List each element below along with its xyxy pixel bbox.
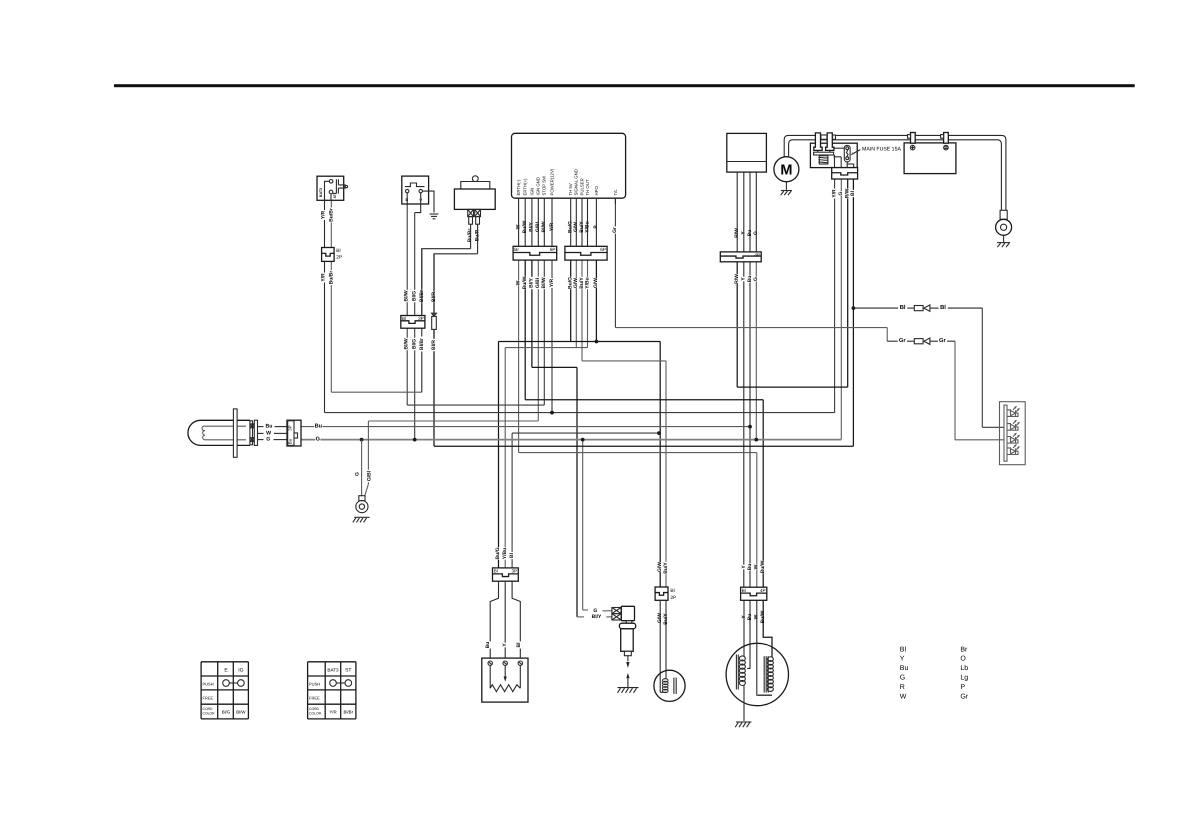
svg-text:Lg: Lg	[960, 675, 968, 682]
svg-text:3P: 3P	[511, 569, 517, 574]
svg-text:Bl: Bl	[940, 304, 946, 311]
svg-text:Gr: Gr	[960, 693, 968, 700]
svg-text:Bl/Br: Bl/Br	[344, 710, 354, 715]
svg-text:Bl/G: Bl/G	[411, 291, 417, 301]
svg-text:P: P	[960, 684, 965, 691]
svg-text:TH 5V: TH 5V	[568, 183, 573, 195]
svg-text:POWER(12V): POWER(12V)	[549, 168, 554, 195]
svg-text:W: W	[754, 564, 760, 569]
svg-text:Bl: Bl	[900, 645, 907, 653]
svg-text:6P: 6P	[550, 247, 556, 252]
svg-text:Y/Bu: Y/Bu	[584, 277, 590, 288]
svg-text:G: G	[838, 191, 844, 195]
svg-text:IG: IG	[238, 668, 243, 674]
svg-text:IGN: IGN	[529, 188, 534, 196]
svg-text:PULSER: PULSER	[579, 178, 584, 195]
svg-text:COLOR: COLOR	[309, 711, 322, 715]
svg-text:G: G	[753, 277, 759, 281]
svg-text:Bu/Br: Bu/Br	[329, 208, 335, 222]
svg-text:G/Bl: G/Bl	[366, 470, 372, 481]
svg-text:Bu/W: Bu/W	[760, 560, 766, 573]
svg-text:Y/R: Y/R	[329, 710, 336, 715]
svg-text:Bl: Bl	[670, 588, 674, 594]
svg-text:ST: ST	[345, 668, 351, 674]
svg-text:FREE: FREE	[309, 695, 320, 700]
svg-text:6P: 6P	[600, 247, 606, 252]
svg-text:Bl: Bl	[336, 248, 340, 254]
svg-text:G: G	[900, 675, 905, 682]
svg-text:G/W: G/W	[593, 278, 599, 288]
svg-text:Bu: Bu	[485, 642, 491, 649]
svg-text:Y/R: Y/R	[831, 189, 837, 198]
svg-text:FREE: FREE	[203, 695, 214, 700]
svg-text:Bl/W: Bl/W	[541, 277, 547, 288]
svg-text:SIGNAL GND: SIGNAL GND	[574, 169, 579, 195]
svg-text:IGN GND: IGN GND	[536, 177, 541, 195]
svg-text:CORD: CORD	[203, 707, 214, 711]
svg-text:Bl: Bl	[900, 304, 906, 311]
svg-text:R/W: R/W	[734, 274, 740, 284]
svg-text:PUSH: PUSH	[203, 682, 214, 687]
svg-text:Gr: Gr	[939, 337, 947, 344]
svg-text:MAIN FUSE 15A: MAIN FUSE 15A	[862, 147, 901, 153]
svg-text:Bl: Bl	[850, 190, 856, 196]
svg-text:Bl/W: Bl/W	[404, 338, 410, 349]
svg-text:Lb: Lb	[960, 664, 968, 672]
svg-text:G/W: G/W	[657, 562, 663, 572]
svg-text:G: G	[266, 437, 270, 443]
svg-text:Bu/G: Bu/G	[495, 547, 501, 559]
svg-text:Bu/Br: Bu/Br	[329, 271, 335, 285]
svg-text:G: G	[355, 472, 361, 476]
svg-text:Y/R: Y/R	[321, 210, 327, 219]
svg-text:2P: 2P	[336, 254, 342, 260]
svg-text:Bu: Bu	[266, 424, 273, 430]
svg-text:4P: 4P	[760, 588, 766, 593]
svg-text:Br: Br	[960, 646, 968, 653]
svg-text:Y: Y	[900, 656, 905, 663]
svg-text:Gr: Gr	[899, 337, 907, 344]
svg-text:ERTH(+): ERTH(+)	[523, 178, 528, 196]
svg-text:3P: 3P	[288, 425, 293, 430]
svg-text:HPO: HPO	[594, 186, 599, 196]
svg-text:O: O	[960, 656, 966, 663]
svg-text:Bl/Y: Bl/Y	[529, 277, 535, 287]
svg-text:Bl: Bl	[494, 569, 498, 574]
svg-text:BAT3: BAT3	[327, 668, 339, 673]
svg-text:Bu: Bu	[747, 276, 753, 283]
svg-text:G: G	[593, 608, 597, 614]
svg-text:STOP SW: STOP SW	[542, 175, 547, 196]
svg-text:Y/Bu: Y/Bu	[502, 548, 508, 559]
svg-text:Br: Br	[514, 247, 519, 252]
svg-text:Bu: Bu	[288, 438, 293, 444]
svg-text:M: M	[780, 162, 792, 178]
svg-text:T/L: T/L	[613, 189, 618, 196]
svg-text:Y/R: Y/R	[321, 273, 327, 282]
svg-text:W: W	[900, 693, 907, 700]
svg-text:R: R	[900, 684, 905, 691]
svg-text:W: W	[266, 430, 271, 436]
svg-text:COLOR: COLOR	[203, 711, 216, 715]
svg-text:Bl/G: Bl/G	[411, 339, 417, 349]
svg-text:Gr: Gr	[612, 227, 618, 233]
svg-text:TH OUT: TH OUT	[585, 179, 590, 195]
svg-text:Bl/G: Bl/G	[222, 710, 231, 715]
svg-text:4P: 4P	[754, 253, 760, 258]
svg-text:Bu: Bu	[900, 665, 909, 672]
svg-text:PUSH: PUSH	[309, 682, 320, 687]
svg-text:Bl/Y: Bl/Y	[592, 614, 602, 620]
svg-text:G: G	[316, 437, 320, 443]
svg-text:Y/R: Y/R	[549, 278, 555, 287]
svg-text:Bl/Br: Bl/Br	[419, 338, 425, 350]
svg-text:Bl/W: Bl/W	[236, 710, 246, 715]
svg-text:Bl: Bl	[742, 588, 746, 593]
svg-text:Bl: Bl	[509, 552, 515, 558]
svg-text:BAT3: BAT3	[319, 188, 323, 197]
svg-text:Bl: Bl	[402, 316, 406, 321]
svg-text:Bu/W: Bu/W	[522, 276, 528, 289]
svg-text:Bl/R: Bl/R	[431, 340, 437, 350]
svg-text:Bl: Bl	[516, 642, 522, 648]
svg-text:Bu: Bu	[747, 564, 753, 571]
svg-text:ERTH(-): ERTH(-)	[516, 179, 521, 195]
svg-text:3P: 3P	[418, 316, 424, 321]
svg-text:CORD: CORD	[309, 707, 320, 711]
svg-text:W: W	[515, 280, 521, 285]
svg-text:Bl/W: Bl/W	[404, 290, 410, 301]
svg-text:2P: 2P	[670, 595, 676, 601]
svg-text:Bu: Bu	[315, 424, 323, 430]
svg-text:Bu/Y: Bu/Y	[663, 562, 669, 574]
